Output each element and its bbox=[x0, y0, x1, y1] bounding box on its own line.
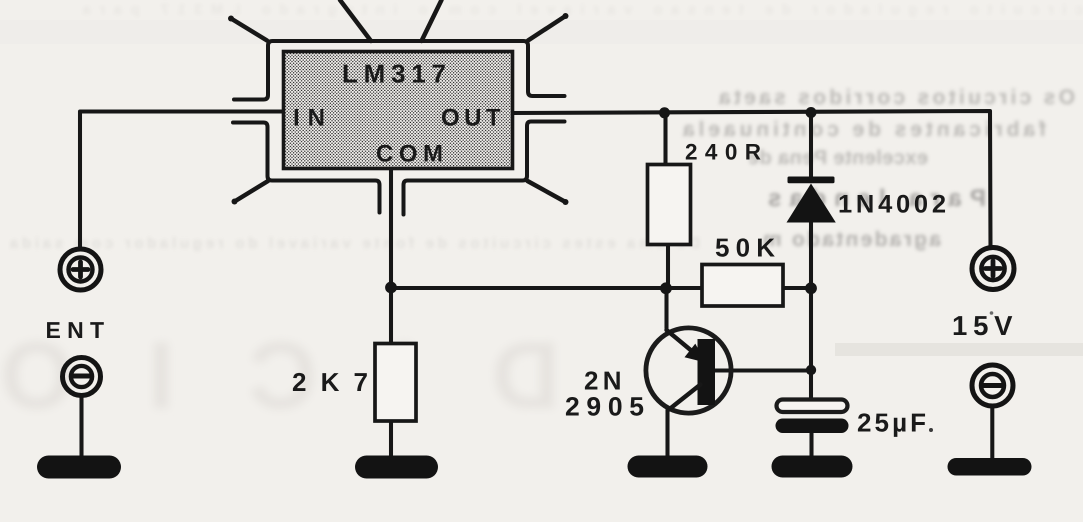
svg-text:excelente Pena de: excelente Pena de bbox=[748, 147, 928, 169]
svg-text:25µF: 25µF bbox=[857, 408, 926, 438]
svg-text:2K7: 2K7 bbox=[292, 367, 368, 397]
svg-text:De uma estes circuitos de font: De uma estes circuitos de fonte variavel… bbox=[9, 235, 700, 252]
svg-text:agradentado m: agradentado m bbox=[763, 228, 941, 251]
svg-text:ENT: ENT bbox=[46, 317, 105, 343]
svg-text:15V: 15V bbox=[952, 310, 1013, 341]
svg-text:OUT: OUT bbox=[441, 105, 501, 132]
svg-text:50K: 50K bbox=[715, 233, 775, 263]
svg-text:IN: IN bbox=[293, 105, 325, 132]
svg-text:circuito regulador de tensao v: circuito regulador de tensao variavel co… bbox=[83, 1, 1083, 17]
svg-text:COM: COM bbox=[376, 141, 443, 168]
